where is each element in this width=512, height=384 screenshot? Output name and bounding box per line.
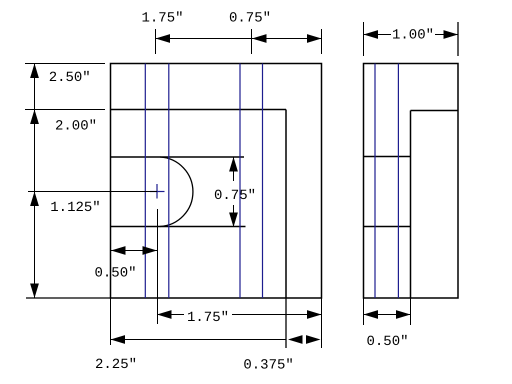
left chain down arrow: [30, 284, 39, 299]
svg-text:1.75": 1.75": [187, 310, 229, 326]
dimension 1.75in top line: [156, 38, 252, 40]
dimension top shared extension line B: [251, 29, 253, 54]
front view step horizontal edge: [111, 109, 287, 111]
dimension 0.50in front right arrow: [143, 246, 158, 255]
svg-text:1.75": 1.75": [141, 11, 183, 27]
front view hidden line 4 (blue): [262, 64, 264, 299]
dimension 2.25in line: [111, 339, 287, 341]
dimension 1.00in left arrow: [364, 30, 379, 39]
front view slot top edge: [111, 156, 245, 158]
svg-text:0.75": 0.75": [229, 11, 271, 27]
extension line below side view step edge: [410, 298, 412, 325]
svg-text:1.125": 1.125": [50, 200, 100, 216]
svg-text:0.50": 0.50": [366, 334, 408, 350]
dimension 0.50in side left arrow: [364, 310, 379, 319]
left chain dimension line: [34, 64, 36, 299]
dimension 2.25in left arrow: [111, 335, 126, 344]
dimension 0.75in top left arrow: [252, 34, 267, 43]
dimension 1.75in bottom line right part: [232, 314, 322, 316]
dimension 1.75in top: extension line A: [155, 29, 157, 54]
slot center mark (blue cross): [150, 184, 165, 199]
side view step vertical edge: [410, 111, 412, 299]
dimension 0.75in slot line lower: [233, 205, 235, 227]
extension line below slot center: [157, 209, 159, 324]
dimension 1.75in bottom right arrow: [307, 310, 322, 319]
dimension 0.75in slot line upper: [233, 157, 235, 181]
side view slot bottom hidden edge: [364, 226, 411, 228]
side view hidden line 1 (blue): [374, 64, 376, 299]
dimension 1.75in bottom line left part: [157, 314, 184, 316]
dimension 1.125in up arrow: [30, 192, 39, 207]
dimension 1.00in right arrow: [444, 30, 459, 39]
extension line below left part edge: [110, 298, 112, 345]
dimension 1.75in top left arrow: [156, 34, 171, 43]
dimension 0.75in slot up arrow: [229, 157, 238, 172]
dimension 2.00in up arrow: [30, 110, 39, 125]
extension line at part bottom (left side): [26, 297, 110, 299]
dimension 2.50in up arrow: [30, 64, 39, 79]
dimension 1.00in line left part: [364, 34, 392, 36]
dimension 0.50in front left arrow: [111, 246, 126, 255]
extension line at step level (left side): [25, 109, 105, 111]
extension line below right part edge: [321, 298, 323, 348]
dimension 0.50in side line: [364, 314, 411, 316]
front view hidden line 1 (blue): [144, 64, 146, 299]
dimension 1.75in bottom left arrow: [157, 310, 172, 319]
dimension 1.00in line right part: [435, 34, 458, 36]
dimension 0.75in slot down arrow: [229, 213, 238, 228]
svg-text:2.00": 2.00": [55, 119, 97, 135]
svg-text:0.75": 0.75": [214, 188, 256, 204]
side view step horizontal edge: [411, 110, 459, 112]
svg-text:2.25": 2.25": [95, 357, 137, 373]
dimension 0.50in front line: [111, 250, 157, 252]
dimension 0.75in top line: [252, 38, 322, 40]
dimension 0.375in left arrow: [288, 335, 303, 344]
front view hidden line 3 (blue): [239, 64, 241, 299]
extension line below step edge: [285, 298, 287, 348]
front view slot bottom edge: [111, 226, 246, 228]
side view outline: [364, 64, 459, 299]
svg-text:1.00": 1.00": [392, 28, 434, 44]
front view step vertical edge: [285, 110, 287, 299]
extension line at part top (left side): [25, 63, 105, 65]
dimension top extension line C: [321, 29, 323, 54]
dimension 0.75in top right arrow: [307, 34, 322, 43]
front view semicircle slot end: [160, 157, 193, 227]
svg-text:0.50": 0.50": [94, 266, 136, 282]
extension line below side view left edge: [363, 298, 365, 325]
front view outline: [111, 64, 322, 299]
svg-text:2.50": 2.50": [49, 70, 91, 86]
dimension 0.50in side right arrow: [396, 310, 411, 319]
dimension 1.00in extension line right: [457, 22, 459, 56]
centerline through slot center: [28, 191, 157, 193]
svg-text:0.375": 0.375": [243, 357, 293, 373]
dimension 1.00in extension line left: [363, 22, 365, 56]
side view hidden line 2 (blue): [397, 64, 399, 299]
dimension 0.375in right arrow: [306, 335, 321, 344]
front view hidden line 2 (blue): [168, 64, 170, 299]
side view slot top hidden edge: [364, 156, 411, 158]
